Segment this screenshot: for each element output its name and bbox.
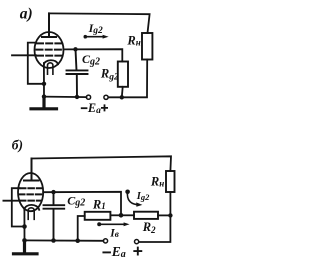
terminal +2 (open circle) xyxy=(135,240,139,244)
tube V1 cathode xyxy=(44,60,58,64)
wire Rg2 bottom to node xyxy=(121,87,124,98)
wire control grid input 2 xyxy=(3,200,19,202)
svg-text:R2: R2 xyxy=(142,220,156,235)
resistor Rn2 xyxy=(166,171,175,192)
ground 2 xyxy=(14,240,38,253)
wire divider node to R2 xyxy=(121,214,134,216)
tube V2 anode xyxy=(24,159,39,181)
resistor R1 xyxy=(85,212,111,220)
tube V1 grid g1 (dashed) xyxy=(37,55,62,57)
wire R1 right to divider node xyxy=(110,214,121,216)
current arrow Ig2 xyxy=(84,35,109,39)
tube V1 grid g3 (dashed) xyxy=(37,42,62,44)
terminal -2 (open circle) xyxy=(103,239,107,243)
tube V1 anode xyxy=(42,13,56,37)
terminal + (open circle) xyxy=(104,95,108,99)
tube V2 cathode xyxy=(24,205,39,210)
tube V1 envelope xyxy=(35,32,64,68)
svg-text:Ig2: Ig2 xyxy=(88,21,103,36)
wire cathode down xyxy=(43,63,45,97)
battery label -Ea+ 2 xyxy=(103,244,141,260)
svg-text:Ea: Ea xyxy=(87,101,101,116)
svg-text:Rн: Rн xyxy=(150,175,164,189)
wire control grid input xyxy=(12,54,36,56)
svg-text:а): а) xyxy=(20,5,33,22)
wire suppressor g3 to cathode xyxy=(28,43,44,84)
resistor R2 xyxy=(134,212,158,219)
current arrow Ig2-2 (curved) xyxy=(125,190,142,207)
wire screen grid g2 to divider node xyxy=(43,192,121,216)
wire anode to top rail and down to Rn2 xyxy=(32,156,172,171)
svg-text:Rg2: Rg2 xyxy=(100,66,119,82)
svg-text:Rн: Rн xyxy=(126,33,140,47)
node suppressor-cathode 2 xyxy=(22,224,27,229)
node divider xyxy=(119,213,124,218)
wire suppressor g3 to cathode 2 xyxy=(12,188,25,226)
current arrow Iv xyxy=(97,222,129,226)
capacitor Cg2-2 xyxy=(44,192,65,240)
wire -2 terminal to cathode node xyxy=(25,239,104,241)
capacitor Cg2 xyxy=(67,49,88,97)
node Cg2-2 top xyxy=(51,190,55,194)
node R1 bottom xyxy=(75,238,80,243)
wire Rn bottom to + terminal xyxy=(108,60,147,98)
tube V1 grid g2 (dashed) xyxy=(37,49,63,51)
svg-text:Ea: Ea xyxy=(111,244,126,260)
tube V2 heater xyxy=(28,208,34,220)
wire Rn2 bottom to + terminal xyxy=(139,192,171,242)
wire R2 right to Rn wire xyxy=(158,214,170,216)
svg-text:б): б) xyxy=(12,138,23,153)
node suppressor-cathode xyxy=(42,82,46,86)
tube V2 grid g2 (dashed) xyxy=(19,193,43,195)
svg-text:Cg2: Cg2 xyxy=(67,193,85,208)
terminal - (open circle) xyxy=(86,95,90,99)
wire screen grid g2 to Rg2 xyxy=(63,49,122,61)
tube V2 grid g3 (dashed) xyxy=(20,187,42,189)
node cathode-ground xyxy=(42,94,46,98)
svg-text:Ig2: Ig2 xyxy=(136,191,150,202)
node Cg2 bottom xyxy=(75,95,79,99)
resistor Rn xyxy=(142,33,152,60)
battery label -Ea+ xyxy=(82,101,107,116)
node cathode-ground 2 xyxy=(22,238,27,243)
resistor Rg2 xyxy=(118,62,128,87)
svg-text:R1: R1 xyxy=(92,197,106,211)
wire cathode down 2 xyxy=(23,209,25,241)
node R2 right xyxy=(168,213,172,217)
node Cg2-2 bottom xyxy=(51,238,56,243)
ground xyxy=(31,97,57,109)
svg-text:Iв: Iв xyxy=(109,227,119,239)
node Rg2 bottom xyxy=(120,95,124,99)
tube V2 envelope xyxy=(18,173,43,211)
node Cg2 top xyxy=(73,47,77,51)
wire R1 left to bottom rail xyxy=(78,216,85,241)
wire anode to top rail and down to Rn xyxy=(49,13,150,33)
tube V2 grid g1 (dashed) xyxy=(20,200,42,202)
svg-text:Cg2: Cg2 xyxy=(82,52,100,68)
tube V1 heater xyxy=(48,63,53,74)
wire - terminal to cathode node xyxy=(44,96,86,99)
